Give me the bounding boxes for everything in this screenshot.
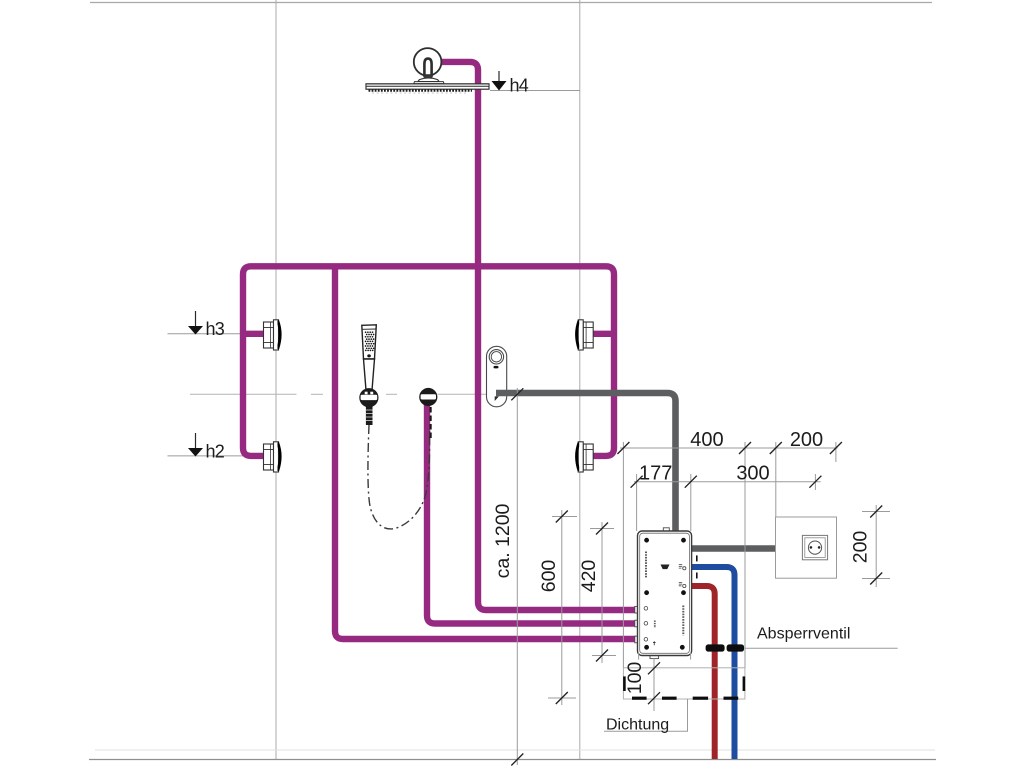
- shut-off valve on cold pipe: [727, 644, 745, 651]
- pipe: hand shower supply: [427, 404, 638, 624]
- svg-text:ca. 1200: ca. 1200: [492, 503, 514, 578]
- svg-text:300: 300: [736, 463, 769, 485]
- svg-text:420: 420: [578, 560, 600, 593]
- cable connector pointer at control panel: [495, 396, 499, 401]
- pipe: hot water supply (red): [692, 586, 715, 759]
- svg-text:177: 177: [639, 463, 672, 485]
- h2 level triangle: [188, 448, 203, 457]
- dimension 420 vertical: [601, 522, 603, 663]
- pipe: branch to left body spray h3: [243, 331, 264, 337]
- dimension 600 vertical: [561, 510, 563, 705]
- wall line left: [275, 0, 277, 759]
- dimension ca.1200 vertical: [516, 388, 518, 765]
- body spray left h2: [264, 442, 281, 472]
- wall line right: [579, 0, 581, 759]
- overhead shower plate: [366, 84, 489, 89]
- h3 marker stem: [195, 311, 197, 326]
- dimension ticks 400/200: [617, 442, 842, 488]
- body spray right h2: [576, 442, 593, 472]
- svg-text:h2: h2: [206, 441, 225, 461]
- dimension 100 vertical: [653, 659, 655, 712]
- basic set port icons left: [644, 607, 648, 642]
- dimension 200 socket vertical: [875, 505, 877, 587]
- svg-text:h3: h3: [206, 319, 225, 339]
- overhead shower nozzle band: [369, 89, 473, 91]
- socket: [802, 535, 827, 559]
- basic set small print right column: [682, 606, 684, 636]
- extension lines: [623, 442, 836, 668]
- hand shower wall outlet: [419, 388, 437, 406]
- shut-off valve on hot pipe: [706, 644, 725, 651]
- basic set centre logo: [661, 565, 670, 570]
- svg-text:600: 600: [538, 560, 560, 593]
- basic set small print centre: [654, 621, 656, 629]
- dimension 400/200 line: [620, 447, 838, 449]
- hand shower hose: [368, 425, 430, 529]
- floor line: [89, 759, 936, 761]
- h4 level triangle: [492, 81, 507, 91]
- svg-text:100: 100: [624, 662, 646, 695]
- hand shower hose top (over supply pipe): [430, 407, 432, 441]
- body spray left h3: [264, 320, 281, 350]
- height line of hand shower / outlet / control (y=394): [190, 393, 490, 395]
- body spray right h3: [576, 320, 593, 350]
- electric cable: control panel to basic set: [496, 393, 676, 531]
- dimension line h2: [168, 455, 278, 457]
- pipe: branch to right body spray h3: [593, 331, 614, 337]
- Dichtung leader: [604, 699, 688, 731]
- Absperrventil leader line: [745, 647, 898, 649]
- svg-text:400: 400: [690, 429, 723, 451]
- hand shower: [362, 325, 377, 392]
- h2 marker stem: [195, 433, 197, 448]
- svg-text:h4: h4: [510, 76, 529, 96]
- svg-text:Absperrventil: Absperrventil: [757, 626, 850, 643]
- seal housing outline: [623, 668, 745, 699]
- basic set port icons right: [679, 565, 686, 588]
- pipe: body spray manifold loop: [243, 266, 614, 456]
- svg-text:Dichtung: Dichtung: [606, 717, 669, 734]
- basic set (concealed body): [635, 528, 692, 659]
- overhead shower connector stub: [424, 59, 431, 76]
- seal dashed line (Dichtung): [632, 697, 738, 700]
- h3 level triangle: [188, 326, 203, 335]
- dimension line h3: [168, 333, 278, 335]
- dimension 177/300 line: [634, 481, 821, 483]
- dimension line h4: [490, 90, 580, 92]
- overhead shower ball joint: [414, 48, 442, 76]
- h4 marker stem: [498, 71, 500, 81]
- pipe: cold water supply (blue): [692, 567, 735, 759]
- control panel (finish set): [487, 346, 507, 407]
- seal side dashes: [623, 676, 626, 691]
- hand shower hose connector stem: [366, 407, 373, 426]
- electric cable: basic set to socket: [692, 545, 777, 552]
- svg-text:200: 200: [850, 531, 872, 564]
- hand shower spray face dots: [365, 331, 375, 357]
- ceiling line: [90, 2, 932, 4]
- overhead shower swivel joint: [424, 76, 433, 80]
- wall socket square: [776, 517, 837, 578]
- floor shadow line: [95, 749, 935, 751]
- basic set screws: [644, 538, 686, 650]
- pipe: feed from basic set to manifold: [335, 266, 638, 639]
- hand shower holder ring: [359, 388, 378, 407]
- basic set small anchor mark: [653, 641, 656, 645]
- basic set G1/2 tick marks at cold port: [696, 555, 698, 561]
- pipe: head shower supply: [440, 62, 638, 610]
- basic set small print left column: [645, 552, 647, 579]
- svg-text:200: 200: [790, 429, 823, 451]
